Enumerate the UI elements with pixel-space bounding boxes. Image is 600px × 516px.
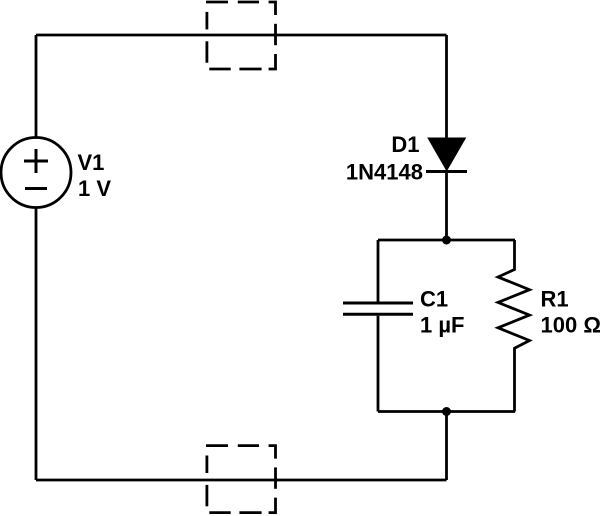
wire left upper [35, 35, 38, 138]
svg-text:D1: D1 [391, 132, 419, 157]
wire bottom [36, 479, 447, 482]
diode D1 [426, 138, 467, 171]
wire top [36, 34, 447, 37]
resistor R1 [498, 240, 530, 412]
wire capacitor top lead [377, 240, 380, 302]
wire right upper [445, 35, 448, 139]
capacitor C1 [343, 303, 413, 314]
svg-text:1N4148: 1N4148 [346, 160, 423, 185]
dashed probe box top [206, 2, 276, 69]
wire capacitor bottom lead [377, 316, 380, 412]
wire diode cathode to node [445, 170, 448, 240]
svg-text:R1: R1 [541, 287, 569, 312]
node junction dot top [442, 236, 451, 245]
svg-text:1 V: 1 V [78, 176, 111, 201]
wire left lower [35, 207, 38, 480]
svg-text:1 µF: 1 µF [420, 313, 464, 338]
svg-text:V1: V1 [78, 150, 105, 175]
node junction dot bottom [442, 407, 451, 416]
wire RC bottom [378, 410, 515, 413]
voltage source V1 [1, 138, 71, 208]
wire RC top [378, 239, 515, 242]
dashed probe box bottom [206, 446, 276, 513]
svg-text:C1: C1 [420, 287, 448, 312]
svg-text:100 Ω: 100 Ω [541, 313, 600, 338]
wire node to bottom [445, 412, 448, 481]
